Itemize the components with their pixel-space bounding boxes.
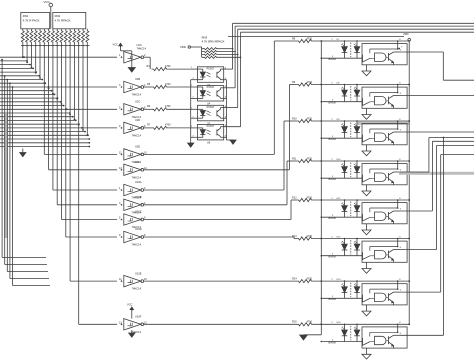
wire VCC to packs: [50, 7, 52, 29]
svg-text:BAV99: BAV99: [329, 341, 337, 344]
svg-text:U10B: U10B: [135, 195, 142, 199]
inverter U10F 74HC14: [124, 319, 141, 330]
svg-text:VCC: VCC: [113, 42, 119, 46]
wire U2C output to R6: [144, 108, 152, 110]
resistor pack element 15: [82, 29, 85, 45]
wire column 15 from pack: [86, 46, 88, 136]
svg-text:BAV99: BAV99: [329, 217, 337, 220]
svg-text:R12: R12: [292, 196, 297, 199]
wire far-left vertical 1: [1, 60, 3, 258]
wire output pin 6 (row 8): [394, 334, 400, 336]
wire cathode rail (row 4): [320, 160, 322, 162]
svg-text:U2A: U2A: [137, 43, 142, 47]
svg-text:U2D: U2D: [135, 118, 140, 122]
ground at U10F: [131, 330, 133, 333]
wire column 13 from pack to inv12 input: [78, 46, 80, 325]
inverter U10A 74HC14: [124, 184, 141, 195]
svg-text:BAV99: BAV99: [329, 256, 337, 259]
wire highlighted net segment (gray, row 4 output): [399, 172, 474, 175]
svg-text:74HC14: 74HC14: [132, 134, 142, 138]
resistor pack element 10: [60, 29, 63, 45]
svg-text:R11: R11: [292, 157, 297, 160]
svg-text:VDD: VDD: [180, 45, 186, 49]
wire R5 to opto pin 1: [169, 86, 190, 88]
wire R4 to U3 pin 1: [169, 68, 190, 70]
svg-text:PC817: PC817: [207, 125, 215, 128]
svg-text:74HC14: 74HC14: [132, 243, 142, 247]
wire R7 to opto pin 1: [169, 127, 190, 129]
resistor pack element 8: [51, 29, 54, 45]
optocoupler U12 6N137 (row 6): [350, 240, 352, 255]
wire bus horizontal 15: [0, 112, 70, 114]
wire U2A output to R4: [144, 56, 151, 58]
wire R9 to opto U8: [314, 84, 410, 86]
wire U2B output to R5: [144, 86, 152, 88]
bus wire under packs: [21, 45, 90, 47]
wire cathode rail (row 7): [320, 280, 322, 282]
svg-text:4.7K 8PIN RPACK: 4.7K 8PIN RPACK: [202, 40, 225, 44]
resistor network RN2 4.7K RPACK: [53, 13, 86, 29]
wire R6 to opto pin 1: [169, 108, 190, 110]
inverter U2E 74HC14: [124, 149, 141, 160]
resistor pack element 2: [26, 29, 29, 45]
svg-text:BAV99: BAV99: [329, 138, 337, 141]
wire cathode rail (row 3): [320, 120, 322, 122]
wire U10E output to row 7: [144, 280, 297, 282]
wire bus horizontal 23: [0, 142, 89, 144]
wire column 0 from pack: [22, 46, 24, 58]
wire U2F output to row at y=84.5: [144, 169, 290, 171]
wire opto U4 collector net to right edge: [234, 26, 236, 88]
svg-text:U2F: U2F: [135, 160, 140, 164]
optocoupler U9 6N137 (row 3): [350, 123, 352, 138]
optocoupler U10 6N137 (row 4): [350, 163, 352, 178]
ground (left mesh): [22, 149, 24, 153]
wire bus horizontal 17: [0, 119, 76, 121]
resistor network RN1 4.7K R PACK: [21, 13, 50, 29]
wire output pin 6 (row 6): [394, 249, 400, 251]
wire far-left vertical 2: [4, 76, 6, 265]
inverter U2D 74HC14: [124, 122, 141, 133]
ground (row 5): [366, 224, 368, 230]
ground (row 3): [366, 145, 368, 151]
wire U2E output to row at y=41.0: [144, 153, 275, 155]
wire column 14 from pack: [82, 46, 84, 131]
wire row 6 output net to right edge: [400, 249, 437, 251]
wire opto U6 collector net to right edge: [240, 32, 242, 127]
wire column 11 from pack to inv11 input: [69, 46, 71, 282]
wire U10A output to row at y=121.0: [144, 189, 284, 191]
svg-text:PC817: PC817: [207, 106, 215, 109]
svg-text:U10D: U10D: [135, 227, 142, 231]
optocoupler U3 PC817: [197, 67, 223, 83]
wire U10B output to row at y=161.0: [144, 204, 287, 206]
svg-text:74HC14: 74HC14: [137, 47, 147, 51]
wire bus horizontal 10: [0, 93, 55, 95]
wire opto U5 collector net to right edge: [237, 29, 239, 107]
svg-text:R15: R15: [292, 321, 297, 324]
wire output pin 6 (row 7): [394, 291, 400, 293]
inverter U2F 74HC14: [124, 164, 141, 175]
wire U10F output to row 8: [144, 323, 297, 325]
svg-text:BAV99: BAV99: [329, 102, 337, 105]
svg-text:U2E: U2E: [135, 145, 140, 149]
wire cathode rail (row 2): [320, 84, 322, 86]
svg-text:VDD: VDD: [403, 32, 409, 36]
wire bus horizontal 6: [0, 79, 42, 81]
wire bus horizontal 4: [0, 71, 36, 73]
ground (row 8): [366, 348, 368, 354]
inverter U2A 74HC14: [124, 52, 141, 63]
wire row 2 output to right edge: [400, 95, 474, 97]
wire R13 to opto U12: [314, 238, 410, 240]
wire RN3 element 4 to pullup net: [219, 56, 241, 58]
wire bus horizontal 22: [0, 138, 89, 140]
resistor pack element 16: [86, 29, 89, 45]
svg-text:R10: R10: [292, 117, 297, 120]
wire row 8 output net joining row 4 net: [400, 334, 444, 336]
wire far-left vertical 3: [6, 80, 8, 272]
wire bus horizontal 12: [0, 101, 61, 103]
inverter U2C 74HC14: [124, 104, 141, 115]
wire cathode rail (row 6): [320, 238, 322, 240]
wire column 10 from pack to inv10 input: [65, 46, 67, 238]
wire bus horizontal 7: [0, 82, 45, 84]
wire U2D output to R7: [144, 127, 152, 129]
wire column 9 from pack to inv9 input: [61, 46, 63, 220]
svg-text:R13: R13: [292, 235, 297, 238]
wire row 7 output net to right edge: [400, 291, 441, 293]
optocoupler U11 6N137 (row 5): [350, 202, 352, 217]
wire output pin 6 (row 1): [394, 51, 400, 53]
optocoupler U14 6N137 (row 8): [350, 326, 352, 341]
wire column 3 from pack: [35, 46, 37, 73]
resistor pack element 13: [73, 29, 76, 45]
svg-text:R14: R14: [292, 278, 297, 281]
optocoupler U8 6N137 (row 2): [350, 86, 352, 101]
svg-text:BAV99: BAV99: [329, 58, 337, 61]
ground (row 1): [366, 65, 368, 71]
ground (row 6): [366, 262, 368, 268]
ground (row 7): [366, 305, 368, 311]
svg-text:U10E: U10E: [135, 271, 142, 275]
wire VDD bus vertical: [408, 41, 410, 324]
wire output pin 6 (row 4): [394, 171, 400, 173]
wire bus horizontal 5: [0, 75, 39, 77]
resistor pack element 9: [56, 29, 59, 45]
wire VDD to RN3: [191, 46, 202, 48]
resistor pack element 3: [30, 29, 33, 45]
svg-text:U10C: U10C: [135, 210, 142, 214]
wire bus horizontal 21: [0, 134, 88, 136]
inverter U10E 74HC14: [124, 275, 141, 286]
svg-text:74HC14: 74HC14: [132, 175, 142, 179]
wire bus horizontal 9: [0, 90, 52, 92]
wire RN3 element 3 to pullup net: [219, 53, 238, 55]
svg-text:PC817: PC817: [207, 86, 215, 89]
wire R15 to opto U14: [314, 323, 410, 325]
inverter U2B 74HC14: [124, 81, 141, 92]
ground at U2A: [131, 57, 133, 67]
wire output pin 6 (row 2): [394, 95, 400, 97]
wire bus horizontal 11: [0, 97, 58, 99]
wire column 5 from pack to inv5 input: [43, 46, 45, 155]
svg-text:4.7K RPACK: 4.7K RPACK: [55, 19, 71, 23]
ground (opto right): [230, 140, 236, 144]
wire RN3 element 1 to pullup net: [219, 48, 233, 50]
svg-text:U2C: U2C: [135, 100, 140, 104]
optocoupler U6 PC817: [197, 124, 223, 139]
inverter U10C 74HC14: [124, 214, 141, 225]
wire output pin 6 (row 3): [394, 131, 400, 133]
wire row 1 output loop to right edge: [398, 48, 400, 50]
wire highlighted net (gray): [4, 112, 8, 238]
wire column 4 from pack: [39, 46, 41, 79]
wire U10D output to row at y=238.5: [144, 236, 294, 238]
ground (opto left): [188, 143, 194, 147]
wire U10C output to row at y=200.0: [144, 219, 291, 221]
wire bus horizontal 19: [0, 127, 117, 129]
inverter U10B 74HC14: [124, 199, 141, 210]
svg-text:U2B: U2B: [135, 77, 140, 81]
wire bus horizontal 14: [0, 108, 117, 110]
wire cathode rail (row 5): [320, 199, 322, 201]
svg-text:VCC: VCC: [127, 303, 133, 307]
resistor pack element 11: [64, 29, 67, 45]
wire R14 to opto U13: [314, 280, 410, 282]
resistor pack element 1: [21, 29, 24, 45]
wire cathode rail (row 1): [320, 40, 322, 42]
wire bus horizontal 2: [0, 64, 30, 66]
wire column 1 from pack: [26, 46, 28, 63]
svg-text:U10A: U10A: [135, 180, 142, 184]
wire column 6 from pack to inv6 input: [48, 46, 50, 170]
inverter U10D 74HC14: [124, 231, 141, 242]
wire bus horizontal 3: [0, 67, 33, 69]
wire row 5 output net to right edge: [400, 210, 433, 212]
wire far-left vertical 4: [9, 83, 11, 278]
svg-text:74HC14: 74HC14: [132, 287, 142, 291]
wire column 7 from pack to inv7 input: [52, 46, 54, 191]
wire opto emitter bus: [226, 80, 228, 140]
resistor pack element 7: [47, 29, 50, 45]
wire row 3 output to right edge: [400, 131, 474, 133]
wire bus horizontal 0: [0, 56, 117, 58]
ground (row 2): [366, 108, 368, 114]
resistor pack element 4: [34, 29, 37, 45]
wire bus horizontal 20: [0, 131, 85, 133]
svg-text:BAV99: BAV99: [329, 178, 337, 181]
wire row 4 output net to right edge: [400, 171, 429, 173]
wire common cathode bus (rows): [320, 41, 322, 335]
ground (row 4): [366, 185, 368, 191]
resistor pack element 5: [39, 29, 42, 45]
wire bus horizontal 1: [0, 60, 27, 62]
wire column 2 from pack: [30, 46, 32, 68]
wire R12 to opto U11: [314, 199, 410, 201]
wire R11 to opto U10: [314, 160, 410, 162]
wire highlighted net segment (gray, row 3): [358, 122, 410, 125]
wire bus horizontal 18: [0, 123, 79, 125]
svg-text:RN2: RN2: [55, 14, 61, 18]
optocoupler U7 6N137 (row 1): [350, 43, 352, 58]
resistor pack element 14: [77, 29, 80, 45]
optocoupler U4 PC817: [197, 86, 223, 102]
svg-text:4.7K R PACK: 4.7K R PACK: [23, 19, 40, 23]
svg-text:74HC14: 74HC14: [132, 93, 142, 97]
wire column 12 from pack: [73, 46, 75, 120]
svg-text:PC817: PC817: [207, 67, 215, 70]
wire bus horizontal 24: [0, 146, 89, 148]
wire column 8 from pack to inv8 input: [56, 46, 58, 205]
wire opto U3 collector net to right edge: [232, 23, 234, 69]
svg-text:U10F: U10F: [135, 315, 142, 319]
wire opto cathode bus to ground: [190, 80, 192, 143]
wire RN3 element 2 to pullup net: [219, 51, 236, 53]
optocoupler U13 6N137 (row 7): [350, 283, 352, 298]
optocoupler U5 PC817: [197, 105, 223, 121]
wire bus horizontal 8: [0, 86, 117, 88]
wire output pin 6 (row 5): [394, 210, 400, 212]
resistor pack element 6: [43, 29, 46, 45]
wire R8 to opto U7: [314, 40, 410, 42]
resistor pack element 12: [69, 29, 72, 45]
svg-text:BAV99: BAV99: [329, 298, 337, 301]
ground (cathode bus): [303, 334, 305, 336]
wire VDD rail across top: [228, 36, 404, 38]
wire bus horizontal 13: [0, 105, 64, 107]
wire far-left vertical 5: [12, 87, 14, 286]
wire R10 to opto U9: [314, 120, 410, 122]
svg-text:RN1: RN1: [23, 14, 29, 18]
wire cathode rail (row 8): [320, 323, 322, 325]
wire bus horizontal 16: [0, 116, 73, 118]
